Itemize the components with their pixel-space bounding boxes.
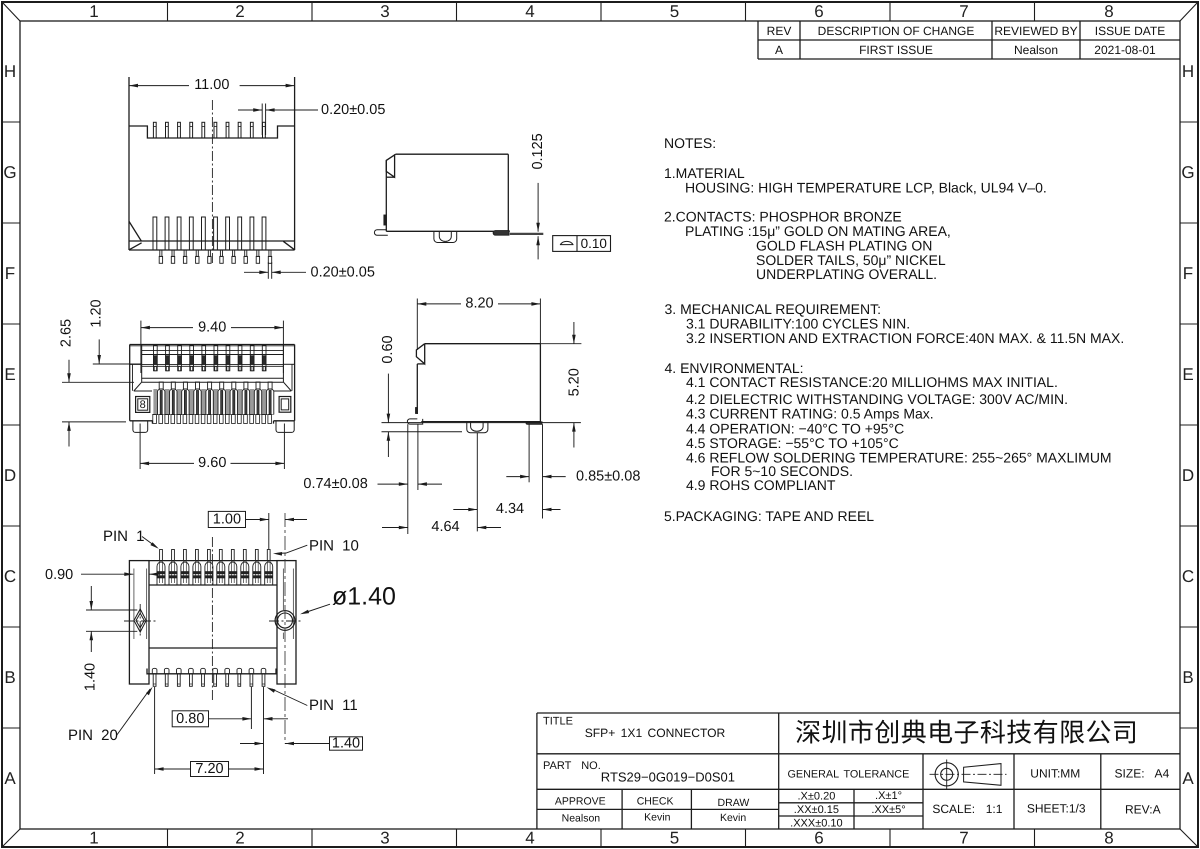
- svg-text:E: E: [1182, 365, 1193, 384]
- front view keying mark 8 left: [136, 397, 150, 413]
- svg-text:SCALE: 1:1: SCALE: 1:1: [932, 802, 1002, 816]
- svg-text:E: E: [4, 365, 15, 384]
- top view upper pin row: [153, 122, 265, 138]
- svg-text:8: 8: [140, 399, 146, 411]
- top view housing outline: [129, 77, 295, 250]
- svg-text:5: 5: [670, 2, 679, 21]
- svg-text:2.65: 2.65: [59, 319, 75, 347]
- svg-text:REVIEWED BY: REVIEWED BY: [994, 24, 1077, 38]
- svg-text:FIRST ISSUE: FIRST ISSUE: [859, 43, 933, 57]
- svg-text:3.2 INSERTION AND EXTRACTION F: 3.2 INSERTION AND EXTRACTION FORCE:40N M…: [686, 330, 1124, 346]
- svg-text:8: 8: [1104, 829, 1113, 848]
- svg-text:.XXX±0.10: .XXX±0.10: [790, 817, 843, 829]
- side view B body: [416, 344, 541, 422]
- side view A seating plane line: [510, 233, 544, 235]
- front view keying mark right: [279, 397, 291, 413]
- svg-text:8: 8: [1104, 2, 1113, 21]
- top view bottom stub row: [159, 250, 271, 263]
- bottom view central body: [147, 561, 277, 674]
- svg-text:REV: REV: [767, 24, 792, 38]
- svg-text:HOUSING: HIGH TEMPERATURE LCP,: HOUSING: HIGH TEMPERATURE LCP, Black, UL…: [685, 180, 1047, 196]
- svg-text:H: H: [1182, 62, 1194, 81]
- side view B solder nub: [467, 422, 488, 433]
- svg-text:2021-08-01: 2021-08-01: [1094, 43, 1156, 57]
- front view lower contact row: [158, 382, 274, 415]
- svg-text:.XX±5°: .XX±5°: [871, 804, 905, 816]
- svg-text:NOTES:: NOTES:: [664, 135, 716, 151]
- front view right foot: [276, 421, 294, 433]
- svg-text:2: 2: [235, 2, 244, 21]
- svg-text:C: C: [1182, 567, 1194, 586]
- svg-text:A: A: [1182, 769, 1194, 788]
- side view B right tail: [526, 422, 542, 425]
- title text: [543, 716, 726, 740]
- svg-text:4.34: 4.34: [496, 501, 524, 517]
- svg-text:D: D: [4, 466, 16, 485]
- svg-text:H: H: [4, 62, 16, 81]
- svg-text:8.20: 8.20: [465, 296, 493, 312]
- svg-text:0.80: 0.80: [176, 711, 204, 727]
- svg-text:1: 1: [89, 829, 98, 848]
- svg-text:5: 5: [670, 829, 679, 848]
- projection symbol: [930, 760, 1007, 790]
- dimension 1.20: [89, 299, 142, 364]
- svg-text:0.60: 0.60: [380, 335, 396, 363]
- svg-text:D: D: [1182, 466, 1194, 485]
- svg-text:11.00: 11.00: [194, 77, 229, 93]
- label PIN 11: [267, 687, 358, 714]
- svg-text:APPROVE: APPROVE: [555, 796, 606, 808]
- side view B left foot: [407, 419, 422, 424]
- svg-text:DESCRIPTION OF CHANGE: DESCRIPTION OF CHANGE: [818, 24, 975, 38]
- bottom view left flange: [129, 561, 149, 684]
- top view centerline: [211, 100, 213, 264]
- dimension 7.20: [155, 687, 264, 777]
- svg-text:.X±1°: .X±1°: [875, 790, 902, 802]
- svg-text:9.60: 9.60: [198, 455, 226, 471]
- svg-text:PIN 1: PIN 1: [103, 528, 145, 545]
- svg-text:Kevin: Kevin: [644, 812, 670, 824]
- part number: [543, 760, 735, 784]
- svg-text:2: 2: [235, 829, 244, 848]
- svg-text:4.3 CURRENT RATING: 0.5 Amps M: 4.3 CURRENT RATING: 0.5 Amps Max.: [686, 406, 934, 422]
- side view A left foot: [374, 230, 387, 236]
- label PIN 10: [273, 537, 359, 555]
- dimension 0.74±0.08: [303, 476, 442, 492]
- svg-text:PIN 10: PIN 10: [309, 537, 359, 554]
- revision table: [758, 21, 1180, 59]
- dimension 1.40 left: [83, 586, 138, 691]
- keying diamond: [134, 609, 146, 632]
- svg-text:CHECK: CHECK: [637, 796, 674, 808]
- dimension 1.00: [208, 511, 307, 549]
- svg-text:1.00: 1.00: [213, 512, 241, 528]
- company name: [795, 717, 1138, 747]
- dimension 4.64: [382, 519, 501, 535]
- svg-text:DRAW: DRAW: [718, 797, 750, 809]
- dimension 9.40: [141, 319, 284, 373]
- svg-text:PIN 20: PIN 20: [68, 727, 118, 744]
- svg-text:G: G: [1181, 163, 1194, 182]
- svg-text:5.20: 5.20: [566, 368, 582, 396]
- svg-text:UNIT:MM: UNIT:MM: [1030, 766, 1080, 780]
- dimension 0.80: [172, 687, 288, 774]
- svg-text:SFP+ 1X1 CONNECTOR: SFP+ 1X1 CONNECTOR: [585, 726, 726, 740]
- svg-text:B: B: [1182, 668, 1193, 687]
- dimension 8.20: [417, 296, 540, 350]
- svg-text:1.40: 1.40: [83, 663, 99, 691]
- svg-text:PIN 11: PIN 11: [309, 697, 358, 714]
- front view housing outline: [130, 345, 295, 424]
- dimension 5.20: [540, 322, 582, 448]
- dimension 2.65: [59, 319, 135, 447]
- svg-text:SHEET:1/3: SHEET:1/3: [1027, 802, 1086, 816]
- dimension 0.125: [530, 133, 546, 259]
- dimension 0.90: [45, 567, 160, 583]
- svg-text:GENERAL TOLERANCE: GENERAL TOLERANCE: [787, 769, 909, 781]
- svg-text:.X±0.20: .X±0.20: [797, 790, 835, 802]
- side view A right tail: [493, 231, 509, 236]
- label diameter 1.40: [300, 583, 396, 615]
- svg-text:TITLE: TITLE: [543, 716, 573, 728]
- zone letters right: [1181, 62, 1194, 788]
- bottom view upper pin row (pins 1-10): [157, 550, 273, 586]
- svg-text:7: 7: [959, 2, 968, 21]
- top view solder tail row: [153, 217, 266, 250]
- svg-text:4: 4: [525, 2, 534, 21]
- svg-text:G: G: [3, 163, 16, 182]
- svg-text:RTS29−0G019−D0S01: RTS29−0G019−D0S01: [601, 769, 735, 784]
- svg-text:4.1 CONTACT RESISTANCE:20 MILL: 4.1 CONTACT RESISTANCE:20 MILLIOHMS MAX …: [686, 374, 1058, 390]
- svg-text:Kevin: Kevin: [720, 812, 746, 824]
- svg-text:C: C: [4, 567, 16, 586]
- scale unit size cells: [932, 766, 1169, 816]
- notes text block: [664, 135, 1124, 524]
- svg-text:SIZE: A4: SIZE: A4: [1115, 766, 1170, 780]
- svg-text:7: 7: [959, 829, 968, 848]
- svg-text:4.64: 4.64: [431, 519, 459, 535]
- svg-text:0.10: 0.10: [581, 236, 607, 251]
- dimension 0.20±0.05 upper: [238, 102, 385, 135]
- dimension 1.40 right: [240, 736, 363, 752]
- svg-text:0.20±0.05: 0.20±0.05: [311, 264, 375, 280]
- svg-text:深圳市创典电子科技有限公司: 深圳市创典电子科技有限公司: [795, 717, 1138, 747]
- svg-text:1.20: 1.20: [89, 299, 105, 327]
- mounting hole circle: [275, 611, 295, 631]
- flatness datum frame 0.10: [553, 236, 611, 252]
- svg-text:0.85±0.08: 0.85±0.08: [576, 469, 640, 485]
- dimension 0.20±0.05 lower: [244, 262, 375, 280]
- svg-text:PART NO.: PART NO.: [543, 760, 601, 772]
- svg-text:Nealson: Nealson: [562, 812, 601, 824]
- approval cells: [555, 796, 749, 825]
- svg-text:1: 1: [89, 2, 98, 21]
- svg-text:4.9 ROHS COMPLIANT: 4.9 ROHS COMPLIANT: [686, 477, 836, 493]
- svg-text:A: A: [775, 43, 783, 57]
- svg-text:9.40: 9.40: [198, 319, 226, 335]
- dimension 0.60: [380, 335, 396, 457]
- view B extension lines: [408, 424, 543, 534]
- general tolerance: [787, 769, 909, 830]
- label PIN 20: [68, 687, 153, 744]
- svg-text:B: B: [4, 668, 15, 687]
- svg-text:3: 3: [380, 829, 389, 848]
- front view upper contact row: [154, 345, 267, 371]
- zone numbers top: [89, 2, 1113, 21]
- hole center extension line: [284, 513, 286, 744]
- svg-text:4: 4: [525, 829, 534, 848]
- svg-text:0.90: 0.90: [45, 567, 73, 583]
- svg-text:1.40: 1.40: [332, 736, 360, 752]
- bottom view right flange: [277, 561, 296, 684]
- side view B seating lines: [382, 423, 581, 432]
- svg-text:3: 3: [380, 2, 389, 21]
- svg-text:REV:A: REV:A: [1125, 803, 1161, 817]
- side view A body: [384, 154, 510, 231]
- bottom view centerlines: [124, 537, 303, 700]
- zone numbers bottom: [89, 829, 1113, 848]
- svg-text:0.74±0.08: 0.74±0.08: [303, 476, 367, 492]
- svg-text:ISSUE DATE: ISSUE DATE: [1095, 24, 1165, 38]
- dimension 9.60: [140, 424, 284, 472]
- dimension 4.34: [453, 501, 560, 517]
- front view lower contact row shading: [153, 389, 272, 415]
- svg-text:6: 6: [814, 2, 823, 21]
- label PIN 1: [103, 528, 159, 549]
- bottom view lower pin row (pins 11-20): [152, 668, 265, 686]
- svg-text:5.PACKAGING: TAPE AND REEL: 5.PACKAGING: TAPE AND REEL: [664, 508, 874, 524]
- svg-text:7.20: 7.20: [195, 761, 223, 777]
- title block frame: [537, 713, 1180, 829]
- svg-text:0.125: 0.125: [530, 133, 546, 169]
- side view A solder nub: [434, 231, 457, 242]
- svg-text:ø1.40: ø1.40: [332, 583, 396, 611]
- svg-text:F: F: [5, 264, 15, 283]
- front view bottom comb: [153, 415, 272, 424]
- svg-text:Nealson: Nealson: [1014, 43, 1058, 57]
- dimension 11.00: [129, 77, 295, 93]
- svg-text:6: 6: [814, 829, 823, 848]
- svg-text:A: A: [4, 769, 16, 788]
- front view left foot: [133, 421, 148, 433]
- svg-text:F: F: [1183, 264, 1193, 283]
- dimension 0.85±0.08: [506, 469, 640, 485]
- svg-text:UNDERPLATING OVERALL.: UNDERPLATING OVERALL.: [756, 266, 937, 282]
- svg-text:0.20±0.05: 0.20±0.05: [321, 102, 385, 118]
- zone letters left: [3, 62, 16, 788]
- svg-text:.XX±0.15: .XX±0.15: [794, 804, 839, 816]
